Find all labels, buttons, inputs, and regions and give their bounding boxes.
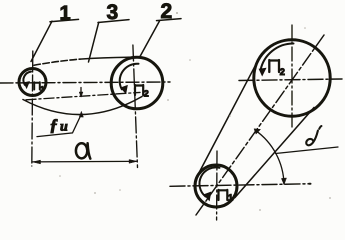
wire: vertical centerline of upper pulley	[291, 25, 293, 128]
f_u sag arrow (vertical double arrow)	[80, 88, 82, 94]
rotation arrow in upper pulley	[261, 43, 294, 70]
label n1 in pulley 1	[34, 82, 40, 89]
belt 3: lower run straight chord (dash-dot)	[26, 92, 140, 99]
belt 3: lower run sagging curve	[23, 97, 142, 115]
pulley 1 (small driving pulley)	[19, 69, 46, 96]
gamma label	[306, 131, 318, 146]
pulley n2 (upper large pulley)	[254, 40, 330, 116]
belt upper-left tangent run	[196, 60, 259, 179]
f_u leader line	[37, 115, 81, 137]
angle arc for gamma	[255, 130, 284, 184]
wire: horizontal centerline of lower pulley (angle reference)	[170, 184, 308, 187]
gamma leader line	[276, 147, 339, 154]
rotation arrow in pulley 2	[120, 64, 139, 90]
svg-text:u: u	[60, 120, 68, 135]
scan speckles	[59, 12, 331, 211]
belt lower-right tangent run	[235, 108, 314, 198]
pulley n1 (lower small pulley)	[195, 165, 237, 207]
dimension a: line with outward arrowheads	[33, 160, 138, 163]
wire: horizontal centerline through both left pulleys	[0, 82, 170, 83]
wire: inclined common centerline	[196, 35, 324, 215]
arc arrowhead lower (on horizontal line)	[281, 178, 286, 185]
wire: vertical centerline of lower pulley	[216, 151, 218, 220]
arc arrowhead upper (on inclined centerline)	[254, 129, 260, 134]
pulley 2 (large driven pulley)	[111, 57, 163, 109]
wire: vertical centerline of small pulley / extension line	[32, 51, 33, 166]
wire: horizontal centerline of upper pulley	[239, 79, 342, 81]
label n1 in lower pulley	[219, 190, 228, 200]
label n2 in pulley 2	[135, 85, 143, 95]
svg-text:2: 2	[144, 89, 149, 99]
svg-text:1: 1	[228, 193, 233, 203]
rotation arrow in lower pulley	[199, 167, 219, 196]
wire: vertical centerline of large pulley / extension line	[133, 45, 138, 168]
label n2 in upper pulley	[269, 60, 279, 72]
dimension a: label	[76, 143, 87, 158]
svg-text:ƒ: ƒ	[50, 116, 59, 135]
svg-text:2: 2	[280, 67, 285, 78]
belt 3: upper run (taut side)	[34, 59, 80, 65]
rotation arrow in pulley 1	[23, 72, 31, 85]
svg-text:1: 1	[40, 86, 44, 93]
